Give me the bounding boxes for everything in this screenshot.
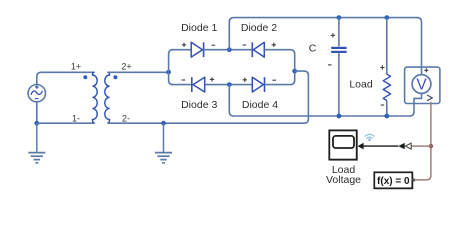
label + of voltmeter [424, 68, 428, 72]
wifi streaming icon [365, 134, 374, 138]
diode Diode 3 [192, 77, 205, 92]
svg-text:2+: 2+ [121, 61, 131, 71]
label - of Diode 1 [212, 44, 216, 46]
wire 2- from transformer secondary bottom to right AC node [107, 71, 308, 123]
label - of Diode 3 [182, 79, 186, 81]
label + of Load [380, 65, 384, 69]
label - of Diode 4 [272, 79, 276, 81]
wire positive bus (top) [229, 18, 421, 75]
label - of Diode 2 [243, 44, 247, 46]
wire row2 left segment [172, 84, 192, 86]
ground (right) [155, 123, 172, 163]
node row1 middle (positive output) [227, 47, 232, 52]
wire from AC source top to transformer 1+ [37, 72, 95, 84]
wire negative bus (bottom) [229, 85, 421, 116]
svg-text:f(x) = 0: f(x) = 0 [377, 176, 410, 187]
node ground tap on 2- wire [161, 121, 166, 126]
solver port nub [412, 179, 415, 182]
physical signal wire from voltmeter output down to solver branch [413, 102, 431, 180]
label + of Diode 2 [272, 43, 276, 47]
wire row1 left segment [172, 49, 192, 51]
diode Diode 1 [191, 42, 203, 57]
scope block shadow [331, 132, 358, 161]
signal wire to scope [360, 145, 398, 147]
node bridge AC input left [166, 70, 171, 75]
label + of Diode 3 [210, 77, 214, 81]
label + of capacitor [331, 33, 335, 37]
node capacitor bottom [337, 114, 342, 119]
label + of Diode 4 [243, 78, 247, 82]
wire 2+ from transformer secondary top to bridge input node [107, 71, 168, 73]
label + of Diode 1 [182, 43, 186, 47]
svg-text:Diode 3: Diode 3 [181, 99, 217, 111]
svg-text:2-: 2- [122, 114, 130, 124]
scope block Load Voltage [329, 130, 356, 159]
ac voltage source V1 [28, 85, 45, 102]
PS-Simulink converter open arrow [405, 143, 411, 149]
wire row1 right segment down to AC node right [264, 50, 294, 71]
node bridge AC input right [292, 69, 297, 74]
svg-text:V: V [416, 77, 427, 94]
signal arrowhead into scope [358, 143, 364, 150]
diode Diode 2 [252, 42, 264, 57]
resistor Load [383, 18, 390, 116]
label - of capacitor [328, 64, 332, 66]
svg-text:Diode 1: Diode 1 [181, 22, 217, 34]
polarity dot secondary [113, 75, 117, 79]
physical signal wire from node to converter [411, 145, 431, 147]
ground (left) [28, 123, 45, 163]
wire from AC source bottom to node [36, 102, 38, 123]
wire 1- from node to transformer primary bottom [37, 122, 95, 124]
svg-text:Load: Load [349, 78, 373, 90]
svg-text:C: C [309, 43, 317, 55]
svg-text:Diode 2: Diode 2 [241, 22, 277, 34]
node capacitor top [337, 15, 342, 20]
node at source bottom / 1- junction [34, 121, 39, 126]
node load bottom [384, 114, 389, 119]
svg-text:1-: 1- [72, 114, 80, 124]
solver block shadow [376, 174, 414, 190]
polarity dot primary [83, 75, 87, 79]
node load top [384, 15, 389, 20]
converter solid arrow [398, 143, 405, 149]
wire row2 middle segment [205, 84, 253, 86]
svg-text:Diode 4: Diode 4 [242, 99, 278, 111]
node on physical signal wire [429, 144, 433, 148]
capacitor C [331, 18, 346, 116]
svg-text:Voltage: Voltage [326, 174, 361, 186]
svg-text:1+: 1+ [71, 61, 81, 71]
node row2 middle (negative output) [227, 82, 232, 87]
transformer T1 primary winding [92, 72, 97, 123]
voltmeter PS output port chevron [427, 95, 432, 101]
solver block f(x) = 0 [374, 172, 412, 188]
scope screen icon [333, 136, 354, 148]
wire left bus of bridge [169, 50, 174, 85]
label - of Load [381, 104, 385, 106]
voltmeter U1 box [405, 67, 440, 103]
transformer T1 secondary winding [105, 72, 110, 123]
wire row2 right segment up to AC node right [265, 71, 295, 85]
voltmeter circle with V [412, 75, 431, 94]
diode Diode 4 [252, 77, 264, 92]
wire row1 middle segment [204, 49, 253, 51]
